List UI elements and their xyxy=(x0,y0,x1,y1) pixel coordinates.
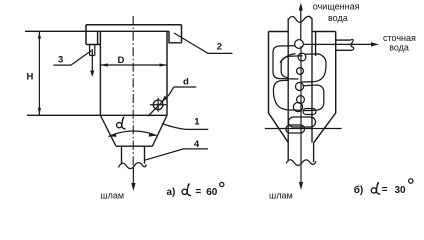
riser pipe right wall xyxy=(311,18,313,143)
left trough box xyxy=(86,31,100,44)
svg-text:шлам: шлам xyxy=(269,191,293,201)
tank left wall xyxy=(268,32,270,114)
svg-text:1: 1 xyxy=(194,116,200,127)
outlet pipe top xyxy=(336,39,351,41)
clean water arrow xyxy=(300,9,302,40)
sludge arrow right xyxy=(300,46,302,183)
circulation loop lower left xyxy=(273,80,301,110)
svg-text:=: = xyxy=(382,184,388,195)
label d underline xyxy=(174,86,196,88)
lid top edge xyxy=(86,24,182,26)
outlet break wave xyxy=(351,39,354,50)
riser pipe top break wave xyxy=(288,16,311,22)
bottom capsule 1 xyxy=(289,117,316,127)
lid right edge xyxy=(181,25,183,43)
cylinder-cone junction / H bottom extension line xyxy=(27,114,167,116)
inner trough wall right xyxy=(315,32,317,57)
right trough box xyxy=(169,31,182,43)
svg-text:3: 3 xyxy=(58,54,63,65)
alpha angle arc xyxy=(109,131,157,137)
valve symbol d : circle xyxy=(153,100,163,110)
inlet flow arrow xyxy=(91,49,93,72)
svg-text:30: 30 xyxy=(395,185,407,196)
valve cross horizontal xyxy=(150,104,166,106)
degree circle left xyxy=(220,182,224,186)
svg-text:б): б) xyxy=(354,184,364,196)
valve cross vertical xyxy=(157,98,159,112)
bubble chain xyxy=(295,40,304,49)
bottom break wave right tank xyxy=(286,160,316,166)
cone left slant right tank xyxy=(269,113,289,143)
H dimension line xyxy=(38,31,40,115)
label 1 leader xyxy=(162,124,208,130)
svg-text:2: 2 xyxy=(217,41,222,52)
small capsule right xyxy=(303,109,316,115)
inlet pipe 3 walls xyxy=(90,45,95,56)
cone bottom xyxy=(116,145,153,147)
bottom outlet walls xyxy=(288,143,313,163)
tank left wall xyxy=(99,31,101,115)
lid bottom / H top extension line xyxy=(25,30,169,32)
label 3 leader xyxy=(53,51,91,66)
svg-text:H: H xyxy=(27,72,34,83)
svg-text:вода: вода xyxy=(328,13,348,23)
tank top edge right segment xyxy=(311,31,335,33)
outlet pipe bottom xyxy=(336,49,352,51)
outlet pipe walls xyxy=(122,146,145,164)
circulation loop upper left outer xyxy=(273,46,299,79)
svg-text:очищенная: очищенная xyxy=(313,2,360,12)
waste water arrow xyxy=(304,43,374,45)
svg-text:d: d xyxy=(183,77,189,88)
svg-text:60: 60 xyxy=(206,187,218,198)
svg-text:вода: вода xyxy=(389,42,409,52)
svg-text:4: 4 xyxy=(194,139,200,150)
bottom capsule 2 xyxy=(286,125,305,133)
tank right wall xyxy=(335,32,337,114)
valve diagonal leader to d xyxy=(148,87,174,116)
sludge arrow left xyxy=(132,168,134,184)
cone right slant xyxy=(152,115,167,146)
section line across cone xyxy=(265,128,342,130)
svg-text:=: = xyxy=(195,187,201,198)
circulation loop upper right xyxy=(301,54,326,82)
label alpha left xyxy=(117,117,126,129)
label 2 leader xyxy=(174,33,233,53)
degree circle right xyxy=(409,179,413,183)
circulation loop lower right xyxy=(304,85,324,111)
cone right slant right tank xyxy=(314,113,336,143)
svg-text:шлам: шлам xyxy=(100,190,124,200)
circulation loop upper left inner xyxy=(281,56,302,78)
lid left edge xyxy=(85,25,87,45)
centerline left tank xyxy=(132,16,134,168)
tank top edge left segment xyxy=(269,31,289,33)
tank right wall xyxy=(166,31,168,115)
flow arch over riser mouth xyxy=(280,54,296,63)
riser pipe left wall xyxy=(287,19,289,143)
label 4 leader xyxy=(145,149,208,160)
svg-text:а): а) xyxy=(167,187,176,198)
cone left slant xyxy=(100,115,116,146)
outlet pipe break wave xyxy=(119,163,147,169)
svg-text:D: D xyxy=(118,55,125,66)
D dimension line xyxy=(100,64,167,66)
